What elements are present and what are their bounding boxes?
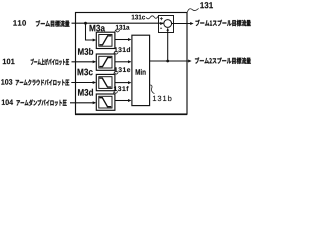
node 104 label bbox=[2, 99, 13, 105]
node 101 label bbox=[3, 59, 15, 65]
node 101: boom raise pilot pressure text (ブーム上げパイロット圧) bbox=[31, 59, 69, 66]
label 131b bbox=[153, 95, 172, 101]
wire: M3c output into Min bbox=[115, 82, 131, 84]
junction node on Min output wire bbox=[166, 60, 169, 63]
lead line for 131d bbox=[114, 52, 118, 54]
Min block (131b) bbox=[132, 35, 150, 105]
plus sign at summing junction bbox=[160, 17, 163, 20]
minus sign at summing junction bbox=[160, 27, 162, 30]
output text: boom1 spool target flow (ブーム1スプール目標流量) bbox=[196, 20, 251, 27]
wire: summing junction output, boom1 spool target flow bbox=[172, 23, 193, 25]
label 131f bbox=[114, 86, 129, 91]
junction node on boom target flow wire bbox=[84, 22, 87, 25]
node 110 label bbox=[13, 20, 26, 26]
node 103 label bbox=[1, 79, 12, 85]
wire: feedback from Min output up into summing junction minus input bbox=[167, 29, 169, 61]
function block M3d label bbox=[78, 89, 93, 96]
label 131d bbox=[114, 47, 130, 52]
wire: arm crowd pilot pressure into M3c bbox=[71, 82, 95, 84]
function block M3a label bbox=[90, 25, 106, 32]
lead line for 131a bbox=[115, 30, 120, 32]
function block M3d (falling map) bbox=[96, 94, 115, 110]
lead line for 131e bbox=[114, 72, 118, 74]
lead line for 131c bbox=[146, 16, 158, 19]
label 131e bbox=[114, 67, 130, 72]
function block M3c (falling map) bbox=[96, 74, 115, 90]
label 131c bbox=[132, 15, 145, 20]
wire: M3b output into Min bbox=[115, 61, 131, 63]
label 131 bbox=[200, 2, 213, 8]
function block M3b label bbox=[78, 48, 93, 55]
wire: M3d output into Min bbox=[115, 100, 131, 102]
lead line for 131b bbox=[150, 85, 155, 94]
wire: Min output to boom2 spool target flow bbox=[150, 60, 191, 62]
wire: arm dump pilot pressure into M3d bbox=[70, 102, 95, 104]
summing junction box bbox=[159, 16, 174, 33]
controller block 131 (outer box) bbox=[76, 13, 188, 115]
function block M3a (rising map) bbox=[96, 32, 115, 48]
function block M3b (rising map) bbox=[96, 54, 115, 70]
node 104: arm dump pilot pressure text (アームダンプパイロット圧) bbox=[16, 99, 66, 106]
wire: branch from junction down to M3a bbox=[86, 23, 96, 40]
function block M3c label bbox=[78, 69, 93, 76]
summing junction circle bbox=[164, 20, 172, 28]
lead line for 131 bbox=[187, 8, 198, 12]
lead line for 131f bbox=[114, 91, 118, 94]
wire: boom target flow into summing junction bbox=[72, 22, 164, 24]
node 110: boom target flow text (ブーム目標流量) bbox=[36, 20, 70, 27]
node 103: arm crowd pilot pressure text (アームクラウドパイロット圧) bbox=[16, 79, 70, 85]
label 131a bbox=[116, 25, 130, 30]
wire: M3a output into Min bbox=[115, 39, 131, 41]
output text: boom2 spool target flow (ブーム2スプール目標流量) bbox=[195, 57, 251, 64]
wire: boom raise pilot pressure into M3b bbox=[72, 61, 96, 63]
